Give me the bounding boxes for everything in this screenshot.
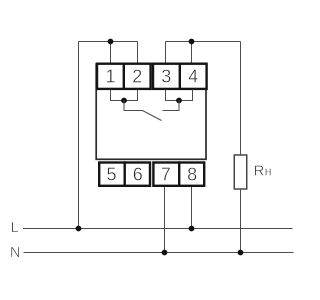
wire from resistor to N line — [240, 189, 242, 253]
wire from terminal 7 to N line — [164, 187, 166, 253]
wire from terminal 8 to L line — [191, 187, 193, 229]
svg-text:8: 8 — [187, 165, 197, 185]
node junction under terminals 3-4 — [176, 98, 182, 104]
wire riser to terminal 4 — [191, 42, 193, 64]
wire riser to terminal 3 — [165, 42, 167, 64]
wire top-left horizontal from L riser to terminal 2 — [79, 41, 138, 43]
wire riser to terminal 2 — [137, 42, 139, 64]
svg-text:4: 4 — [188, 66, 198, 86]
terminal divider 7|8 — [178, 161, 180, 187]
svg-text:2: 2 — [132, 66, 142, 86]
svg-text:6: 6 — [133, 165, 143, 185]
terminal block 7-8 — [153, 163, 204, 186]
wire jumper under terminals 1-2 — [111, 90, 138, 101]
svg-text:1: 1 — [105, 66, 115, 86]
node junction above terminal 4 — [189, 39, 195, 45]
svg-text:L: L — [11, 220, 19, 236]
node junction terminal 7 on N line — [162, 250, 168, 256]
terminal divider 5|6 — [123, 161, 125, 187]
N line — [24, 252, 294, 254]
node junction terminal 8 on L line — [189, 226, 195, 232]
wire right contact lead — [163, 101, 180, 111]
node junction resistor on N line — [238, 250, 244, 256]
terminal block 5-6 — [99, 163, 150, 186]
terminal divider 1|2 — [123, 63, 125, 91]
wire resistor riser from top wire to resistor — [240, 42, 242, 156]
resistor RH body — [234, 155, 247, 189]
svg-text:Rн: Rн — [254, 164, 272, 180]
node junction L riser on L line — [76, 226, 82, 232]
svg-text:5: 5 — [106, 165, 116, 185]
wire riser to terminal 1 — [110, 42, 112, 64]
wire top-right horizontal from terminal 3 to resistor riser — [166, 41, 241, 43]
device body outline — [96, 64, 206, 159]
switch blade open contact — [143, 111, 162, 121]
wire left contact lead — [124, 101, 143, 111]
svg-text:N: N — [10, 245, 20, 261]
node junction under terminals 1-2 — [121, 98, 127, 104]
node junction above terminal 1 — [108, 39, 114, 45]
L line — [23, 228, 293, 230]
wire left riser from top wire to L line — [78, 42, 80, 229]
svg-text:3: 3 — [161, 66, 171, 86]
terminal block 1-2 — [97, 64, 151, 89]
terminal block 3-4 — [153, 64, 207, 89]
wire jumper under terminals 3-4 — [166, 90, 193, 101]
terminal divider 3|4 — [179, 63, 181, 91]
svg-text:7: 7 — [161, 165, 171, 185]
